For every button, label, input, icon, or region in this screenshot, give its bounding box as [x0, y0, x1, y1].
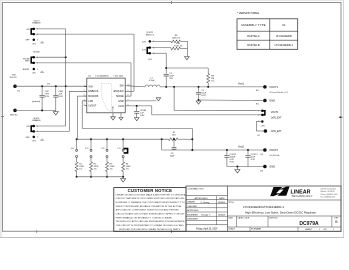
svg-text:CAGE CODE: CAGE CODE	[237, 216, 250, 219]
svg-text:APPROVALS: APPROVALS	[194, 197, 208, 200]
svg-text:LVOUT: LVOUT	[88, 105, 96, 108]
svg-text:* VERSION TABLE: * VERSION TABLE	[237, 11, 259, 15]
svg-text:25V: 25V	[169, 78, 173, 80]
svg-text:124K 1%: 124K 1%	[172, 38, 180, 40]
svg-text:MODE: MODE	[33, 51, 40, 53]
svg-text:DC979A-A: DC979A-A	[247, 34, 260, 38]
svg-text:ENVLDO: ENVLDO	[114, 90, 124, 93]
svg-text:1%: 1%	[94, 168, 97, 170]
svg-text:3V-5.5V: 3V-5.5V	[10, 77, 18, 79]
svg-text:6.3V: 6.3V	[140, 115, 145, 117]
svg-text:3: 3	[37, 137, 38, 139]
svg-text:Vout1: Vout1	[238, 83, 245, 86]
svg-text:SIZE: SIZE	[228, 217, 233, 219]
svg-text:6.3V: 6.3V	[251, 159, 256, 161]
svg-text:10pF: 10pF	[170, 155, 175, 157]
svg-text:PGND: PGND	[113, 105, 115, 111]
svg-text:1630 McCarthy Blvd.: 1630 McCarthy Blvd.	[321, 188, 337, 191]
svg-text:Friday, April 20, 2007: Friday, April 20, 2007	[196, 227, 218, 230]
svg-text:ENABLE: ENABLE	[32, 119, 41, 122]
svg-text:1%: 1%	[126, 168, 129, 170]
svg-text:CUSTOMER NOTICE: CUSTOMER NOTICE	[128, 188, 173, 193]
svg-text:1%: 1%	[211, 80, 214, 82]
svg-text:CONTRACT NO.: CONTRACT NO.	[188, 187, 205, 190]
svg-text:CIRCUIT BOARD LAYOUT MAY SIGNI: CIRCUIT BOARD LAYOUT MAY SIGNIFICANTLY A…	[116, 213, 186, 216]
svg-text:1: 1	[258, 110, 259, 112]
svg-text:Milpitas, CA 95035: Milpitas, CA 95035	[321, 190, 335, 193]
svg-text:51K: 51K	[172, 134, 176, 136]
svg-text:U1: U1	[282, 23, 286, 27]
svg-text:Fax: (408)434-0507: Fax: (408)434-0507	[321, 196, 336, 198]
svg-text:SELECT: SELECT	[146, 35, 155, 37]
svg-text:75.0K 1%: 75.0K 1%	[174, 45, 183, 47]
svg-text:LFB: LFB	[88, 100, 93, 103]
svg-text:2.5V: 2.5V	[142, 49, 147, 51]
svg-text:SKIP: SKIP	[25, 61, 30, 63]
svg-text:(x2)300mA: (x2)300mA	[269, 154, 280, 157]
svg-text:SHEET: SHEET	[305, 229, 313, 231]
svg-text:THE CIRCUIT IS PROPRIETARY TO: THE CIRCUIT IS PROPRIETARY TO LINEAR TEC…	[116, 224, 184, 227]
svg-text:LVIN_EXT: LVIN_EXT	[271, 131, 282, 133]
svg-text:VOUT2: VOUT2	[269, 148, 278, 152]
svg-text:LTC3441EDD: LTC3441EDD	[96, 75, 110, 77]
svg-text:LTC3441EDD: LTC3441EDD	[276, 34, 292, 38]
svg-text:MODE: MODE	[116, 95, 124, 98]
svg-text:SCALE: SCALE	[228, 228, 235, 231]
svg-text:1%: 1%	[79, 168, 82, 170]
svg-text:4.7uH: 4.7uH	[149, 80, 155, 82]
svg-text:HOWEVER, IT REMAINS THE CUSTOM: HOWEVER, IT REMAINS THE CUSTOMER'S RESPO…	[116, 201, 185, 204]
svg-text:TITLE: TITLE	[228, 202, 234, 204]
svg-text:DC979A-B: DC979A-B	[247, 43, 260, 47]
svg-text:5V/max500mA - (x2): 5V/max500mA - (x2)	[269, 91, 288, 94]
svg-text:FILENAME: FILENAME	[251, 228, 262, 231]
svg-text:TECHNOLOGY APPLICATIONS ENGINE: TECHNOLOGY APPLICATIONS ENGINEERING FOR …	[116, 220, 186, 223]
svg-text:LVIN_EXT: LVIN_EXT	[271, 117, 282, 119]
svg-text:VERIFY PROPER AND RELIABLE OPE: VERIFY PROPER AND RELIABLE OPERATION IN …	[116, 205, 183, 208]
svg-text:TECHNOLOGY: TECHNOLOGY	[292, 194, 313, 198]
svg-text:OFF: OFF	[25, 137, 30, 139]
svg-text:10/26/05: 10/26/05	[218, 202, 225, 204]
svg-text:DC979A: DC979A	[299, 221, 319, 227]
svg-text:VOUT1: VOUT1	[271, 112, 279, 114]
svg-text:ON: ON	[26, 29, 30, 31]
svg-text:OFF: OFF	[25, 40, 30, 42]
svg-text:BURST: BURST	[23, 69, 31, 71]
svg-text:ENABLE: ENABLE	[32, 22, 41, 25]
svg-text:GND: GND	[269, 99, 275, 103]
svg-text:VIN: VIN	[88, 86, 92, 89]
svg-text:* See table: * See table	[113, 74, 124, 77]
svg-text:APPLICATION. COMPONENT SUBSTI: APPLICATION. COMPONENT SUBSTITUTION AND …	[116, 209, 180, 212]
svg-text:2.5V: 2.5V	[84, 148, 89, 150]
svg-text:CHECKED: CHECKED	[187, 206, 197, 208]
svg-text:6.3V: 6.3V	[45, 96, 50, 98]
svg-text:DRAWN: DRAWN	[187, 201, 195, 204]
svg-text:DWG NO.: DWG NO.	[269, 217, 278, 219]
svg-text:ON: ON	[26, 126, 30, 128]
svg-text:ENBUCK: ENBUCK	[88, 90, 99, 93]
svg-text:LTC3441EDD-1: LTC3441EDD-1	[275, 43, 294, 47]
svg-text:SUPPLIED FOR USE WITH LINEAR T: SUPPLIED FOR USE WITH LINEAR TECHNOLOGY …	[119, 228, 181, 231]
svg-text:GND: GND	[118, 100, 124, 103]
svg-text:(optional): (optional)	[32, 100, 40, 103]
svg-text:2: 2	[258, 115, 259, 117]
svg-text:ENGINEER: ENGINEER	[187, 214, 198, 216]
svg-text:3: 3	[37, 69, 38, 71]
svg-text:ASSEMBLY TYPE: ASSEMBLY TYPE	[241, 23, 266, 27]
svg-text:10/26/05: 10/26/05	[218, 215, 225, 217]
svg-text:LVIN: LVIN	[118, 105, 123, 108]
svg-text:3: 3	[37, 40, 38, 42]
svg-text:GND E2: GND E2	[10, 114, 18, 116]
svg-text:VOUT1: VOUT1	[269, 85, 278, 89]
svg-text:POS: POS	[230, 161, 235, 163]
svg-text:High Efficiency, Low Noise, St: High Efficiency, Low Noise, Step-Down DC…	[245, 211, 316, 215]
svg-text:BUCKFB: BUCKFB	[88, 95, 98, 98]
svg-text:6.3V: 6.3V	[59, 96, 64, 98]
svg-text:SW: SW	[120, 85, 125, 88]
svg-text:Vout2: Vout2	[238, 146, 245, 149]
svg-text:DESIGNER: DESIGNER	[187, 219, 198, 221]
svg-text:PERFORMANCE OR RELIABILITY. C: PERFORMANCE OR RELIABILITY. CONTACT LINE…	[116, 216, 172, 219]
svg-text:1%: 1%	[110, 168, 113, 170]
svg-text:LTC3441EDD/LTC3441EDD-1: LTC3441EDD/LTC3441EDD-1	[243, 205, 284, 209]
svg-text:K. Hoang: K. Hoang	[201, 202, 211, 204]
svg-text:CIRCUIT THAT MEETS CUSTOMER-SU: CIRCUIT THAT MEETS CUSTOMER-SUPPLIED SPE…	[116, 197, 185, 200]
svg-text:DATE: DATE	[219, 197, 225, 200]
svg-text:APPROVED: APPROVED	[187, 209, 199, 212]
svg-text:George Y.: George Y.	[201, 214, 211, 217]
svg-text:6.3V: 6.3V	[201, 95, 206, 97]
svg-text:LINEAR TECHNOLOGY HAS MADE A B: LINEAR TECHNOLOGY HAS MADE A BEST EFFORT…	[116, 193, 186, 196]
svg-text:GND: GND	[269, 165, 275, 169]
svg-text:1.8V: 1.8V	[142, 41, 147, 43]
